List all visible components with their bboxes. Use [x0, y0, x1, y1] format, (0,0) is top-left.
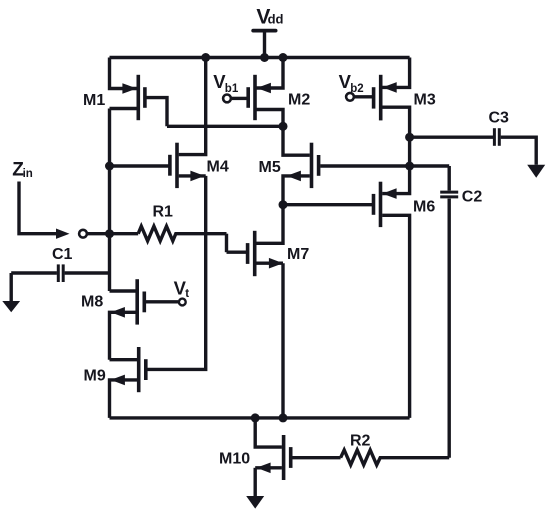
svg-text:M2: M2: [288, 92, 310, 109]
svg-text:in: in: [23, 168, 33, 180]
svg-text:C2: C2: [462, 188, 483, 205]
resistor R1: [138, 226, 226, 241]
transistor M9: [110, 347, 146, 418]
transistor M7: [227, 205, 284, 277]
junction dot M5 gate / C2 / M3-M6 column: [405, 162, 414, 171]
capacitor C1: [11, 264, 109, 282]
transistor M1: [110, 58, 168, 127]
junction dot top rail / M2 source: [279, 53, 288, 62]
ground below C1: [2, 273, 20, 312]
svg-text:M9: M9: [84, 368, 106, 385]
svg-text:b1: b1: [225, 83, 239, 95]
svg-text:R2: R2: [350, 433, 371, 450]
power symbol Vdd: [253, 31, 275, 58]
transistor M6: [283, 166, 410, 418]
terminal Vb1: [223, 95, 231, 103]
transistor M4: [110, 58, 206, 189]
junction dot bottom rail / M10 drain: [251, 413, 260, 422]
wire M7 source to bottom rail: [281, 263, 284, 418]
ground below C3: [527, 165, 545, 178]
wire M4 source to M9 gate: [147, 176, 206, 370]
svg-text:M7: M7: [287, 246, 309, 263]
svg-text:M1: M1: [83, 92, 105, 109]
ground below M10: [246, 468, 264, 509]
resistor R2: [341, 450, 450, 465]
svg-text:dd: dd: [268, 12, 284, 27]
transistor M2: [232, 58, 283, 127]
svg-text:M8: M8: [81, 294, 103, 311]
svg-text:C3: C3: [489, 110, 510, 127]
input terminal circle: [79, 230, 87, 238]
svg-text:t: t: [185, 288, 189, 300]
label Vt: [174, 277, 190, 300]
junction dot node B: M5 source / M7 drain / M6 gate: [279, 200, 288, 209]
wire bottom rail: [110, 416, 410, 419]
terminal Vt: [179, 299, 186, 306]
terminal Vb2: [346, 93, 354, 101]
svg-text:M5: M5: [259, 159, 281, 176]
wire M3 drain to M5 gate node: [408, 137, 411, 166]
capacitor C2: [410, 166, 459, 197]
label Vdd: [256, 6, 283, 29]
wire left rail (input node column): [108, 109, 111, 292]
transistor M10: [255, 418, 340, 480]
label Vb2: [339, 71, 364, 95]
wire input node: [87, 232, 138, 235]
transistor M5: [283, 126, 410, 204]
junction dot M4 gate / left rail: [105, 162, 114, 171]
label Vb1: [213, 71, 239, 95]
junction dot node A: [279, 122, 288, 131]
label Zin: [12, 160, 33, 181]
svg-text:M4: M4: [207, 159, 229, 176]
junction dot bottom rail / M7 source: [279, 413, 288, 422]
junction dot top rail / M4 drain: [201, 53, 210, 62]
transistor M8: [110, 279, 179, 360]
wire R2 to C2 (gate feedback column): [448, 199, 451, 458]
svg-text:M10: M10: [219, 451, 250, 468]
wire node A: M1 gate - M2 drain - M5 drain: [167, 125, 283, 128]
junction dot input / left rail: [105, 229, 114, 238]
transistor M3: [355, 58, 410, 138]
svg-text:b2: b2: [350, 83, 363, 95]
svg-text:M3: M3: [414, 92, 436, 109]
wire top rail (Vdd net): [110, 56, 410, 59]
input arrow Zin: [19, 182, 70, 239]
svg-text:R1: R1: [153, 203, 174, 220]
svg-text:C1: C1: [52, 246, 73, 263]
junction dot output node M3 drain: [405, 133, 414, 142]
capacitor C3: [410, 128, 537, 165]
junction dot top rail / Vdd stem: [260, 53, 269, 62]
svg-text:M6: M6: [413, 199, 435, 216]
